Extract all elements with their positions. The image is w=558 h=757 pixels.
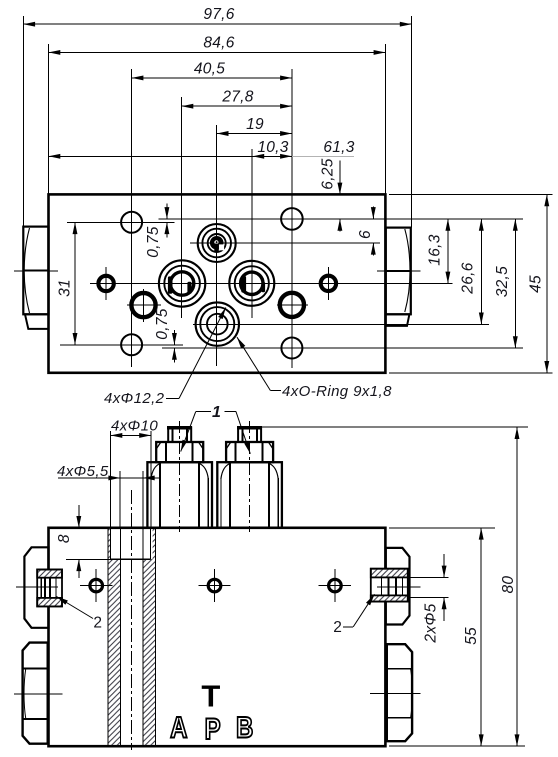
dimension 97,6 bbox=[23, 23, 411, 25]
svg-text:16,3: 16,3 bbox=[427, 234, 444, 265]
dimension 84,6 bbox=[49, 51, 386, 53]
bolt hole circle right (front) bbox=[329, 579, 342, 592]
dimension 0,75 lower arrows bbox=[173, 330, 175, 345]
leader 2 right bbox=[343, 626, 353, 628]
dimension 16,3 bbox=[447, 219, 449, 284]
row line mid ports (y=283.4) bbox=[90, 282, 453, 284]
bolt hole circle middle (front) bbox=[208, 579, 221, 592]
leader 4x diam 12,2 bbox=[166, 398, 179, 400]
right side plug head (top view) bbox=[386, 228, 411, 326]
dimension 4x diam 10 bbox=[111, 434, 152, 436]
center bore outlines bbox=[107, 528, 109, 745]
row line TR circles (y=218.9) bbox=[159, 218, 523, 220]
block body outline (top view) bbox=[49, 194, 386, 372]
svg-text:55: 55 bbox=[463, 627, 480, 645]
port A (left) bbox=[159, 260, 205, 306]
dimension 0,75 upper arrows bbox=[166, 204, 168, 219]
center line vertical port B (x=252.2) bbox=[251, 149, 253, 318]
svg-text:32,5: 32,5 bbox=[494, 266, 511, 297]
dimension 27,8 bbox=[182, 105, 292, 107]
svg-text:4xΦ12,2: 4xΦ12,2 bbox=[104, 390, 165, 407]
right plug axis center line bbox=[377, 270, 421, 272]
fitting 1 left: cap nut bbox=[167, 427, 192, 442]
lower left hex plug bbox=[23, 643, 48, 744]
row line top port (y=242.8) bbox=[190, 242, 380, 244]
svg-text:61,3: 61,3 bbox=[323, 139, 354, 156]
fitting 1 right: body nut bbox=[217, 462, 282, 528]
fitting 1 right: middle hex bbox=[226, 442, 273, 462]
leader 1 to left fitting bbox=[196, 410, 211, 412]
center line vertical port A (x=181.5) bbox=[181, 97, 183, 318]
svg-text:40,5: 40,5 bbox=[194, 60, 225, 77]
mounting hole TR bbox=[281, 208, 303, 230]
svg-text:8: 8 bbox=[56, 534, 73, 543]
svg-text:A: A bbox=[170, 710, 187, 744]
left side plug head (top view) bbox=[23, 227, 48, 329]
lower right plug axis bbox=[370, 692, 421, 694]
small bolt hole right bbox=[321, 276, 336, 291]
fitting 1 right: axis center line bbox=[249, 421, 251, 532]
dimension 55 bbox=[480, 528, 482, 746]
svg-text:27,8: 27,8 bbox=[221, 89, 253, 106]
row line BL circle (y=344.8) bbox=[60, 344, 183, 346]
svg-text:4xΦ5,5: 4xΦ5,5 bbox=[57, 463, 109, 480]
svg-text:26,6: 26,6 bbox=[459, 262, 476, 294]
center line vertical main axis (x=216.7) bbox=[216, 125, 218, 366]
fitting 1 left: axis center line bbox=[179, 421, 181, 532]
svg-text:0,75: 0,75 bbox=[154, 308, 171, 339]
svg-text:0,75: 0,75 bbox=[145, 226, 162, 257]
medium hole left bbox=[131, 293, 155, 317]
cross line left small hole bbox=[105, 267, 107, 300]
svg-text:80: 80 bbox=[500, 576, 517, 594]
left plug axis center line bbox=[14, 270, 58, 272]
dimension 31 bbox=[74, 222, 76, 344]
dimension 19 bbox=[217, 133, 292, 135]
center line vertical col left (x=131.6) bbox=[131, 69, 133, 367]
lower right hex plug bbox=[387, 644, 413, 741]
cross line right medium hole bbox=[277, 304, 308, 306]
dimension 6 arrows bbox=[372, 207, 374, 219]
svg-text:P: P bbox=[205, 711, 221, 745]
svg-text:97,6: 97,6 bbox=[203, 6, 234, 23]
port B (right) bbox=[229, 261, 274, 306]
mounting hole BL bbox=[121, 334, 142, 355]
port P (top, with orifice) bbox=[198, 224, 236, 262]
svg-text:84,6: 84,6 bbox=[203, 34, 234, 51]
svg-text:4xO-Ring 9x1,8: 4xO-Ring 9x1,8 bbox=[282, 383, 392, 400]
svg-text:45: 45 bbox=[528, 275, 545, 293]
svg-text:19: 19 bbox=[246, 116, 264, 133]
svg-text:4xΦ10: 4xΦ10 bbox=[111, 418, 158, 435]
svg-text:6,25: 6,25 bbox=[320, 158, 337, 189]
dimension 2x diam 5 bbox=[409, 576, 449, 578]
row line BR circle (y=348) bbox=[162, 347, 523, 349]
center bore axis center line bbox=[131, 490, 133, 750]
leader 4x O-Ring bbox=[270, 390, 281, 392]
svg-text:2xΦ5: 2xΦ5 bbox=[423, 603, 440, 643]
block body outline (front view) bbox=[49, 528, 386, 746]
dimension 80 bbox=[516, 427, 518, 746]
dimension 40,5 bbox=[132, 77, 292, 79]
upper right plug gland (sectioned) bbox=[371, 569, 408, 602]
bolt hole circle left (front) bbox=[90, 579, 103, 592]
fitting 1 right: cap nut bbox=[237, 427, 262, 442]
svg-text:B: B bbox=[236, 710, 253, 744]
leader 2 left bbox=[57, 597, 94, 619]
dimension 26,6 bbox=[480, 219, 482, 324]
medium hole right bbox=[280, 293, 304, 317]
dimension 4x diam 5,5 bbox=[58, 477, 160, 479]
counterbore shoulder bbox=[111, 558, 151, 560]
port T (bottom) bbox=[196, 302, 239, 345]
dimension 6,25 arrows bbox=[339, 161, 341, 195]
upper left plug axis bbox=[16, 586, 58, 588]
fitting 1 left: body nut bbox=[147, 462, 212, 528]
svg-text:T: T bbox=[201, 678, 220, 713]
dimension 8 bbox=[78, 505, 80, 528]
small bolt hole left bbox=[98, 276, 113, 291]
center line vertical col right (x=291.9) bbox=[291, 69, 293, 368]
lower left plug axis bbox=[14, 693, 62, 695]
sectioned center bore: hatch strips bbox=[108, 559, 121, 745]
row line bottom port (y=324.3) bbox=[193, 323, 489, 325]
dimension 61,3 line with 10,3 bbox=[49, 155, 292, 157]
dimension 45 bbox=[546, 194, 548, 372]
row line TL circle (y=222.3) bbox=[67, 221, 174, 223]
upper right plug axis bbox=[377, 586, 421, 588]
cross line right small hole bbox=[327, 267, 329, 300]
upper left plug hex head bbox=[24, 547, 48, 628]
svg-text:31: 31 bbox=[57, 279, 74, 297]
svg-text:2: 2 bbox=[93, 615, 102, 632]
svg-text:2: 2 bbox=[333, 619, 342, 636]
dimension 32,5 bbox=[514, 219, 516, 348]
mounting hole TL bbox=[121, 212, 142, 233]
upper right plug hex head bbox=[386, 548, 410, 625]
cross lines left medium hole bbox=[127, 304, 161, 306]
upper left plug gland (sectioned) bbox=[37, 570, 62, 607]
svg-text:10,3: 10,3 bbox=[257, 139, 288, 156]
leader 1 to right fitting bbox=[225, 410, 236, 412]
svg-text:1: 1 bbox=[212, 404, 221, 421]
svg-text:6: 6 bbox=[357, 230, 374, 239]
fitting 1 left: middle hex bbox=[156, 442, 203, 462]
mounting hole BR bbox=[281, 338, 302, 359]
